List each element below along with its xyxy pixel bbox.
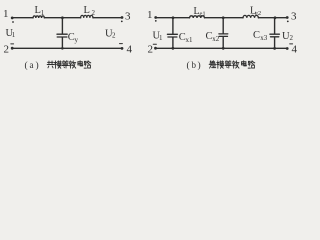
caption (b) prefix [187, 60, 201, 71]
label L2 [84, 5, 96, 17]
caption (b) text 差模等效电路 [209, 61, 255, 69]
junction node bottom of Cx2 [222, 47, 225, 50]
junction node bottom of Cy [61, 47, 64, 50]
bottom wire (circuit b) [157, 47, 286, 49]
label Cx1 [179, 32, 193, 44]
capacitor Cx2 plates [219, 33, 228, 35]
svg-text:1: 1 [41, 9, 45, 17]
label Le2 [250, 6, 261, 17]
label Cx2 [206, 31, 220, 43]
voltage label U2 (circuit b) [282, 31, 294, 42]
wire top 2 (circuit b) [205, 17, 244, 19]
svg-text:C: C [253, 30, 260, 41]
svg-text:L: L [84, 5, 90, 16]
node 3 (circuit a) label [125, 11, 131, 23]
terminal dot node 1 (circuit a) [11, 17, 14, 20]
svg-text:2: 2 [112, 32, 116, 40]
polarity mark below node 1 (circuit a) [12, 21, 14, 23]
voltage label U1 (circuit a) [6, 28, 16, 39]
junction node top of Cx2 [222, 16, 225, 19]
capacitor Cy top lead [61, 19, 63, 34]
svg-text:): ) [198, 60, 201, 71]
label Le1 [194, 6, 206, 18]
svg-text:4: 4 [292, 43, 298, 55]
svg-text:b: b [192, 60, 197, 70]
inductor L2 coil [81, 15, 93, 18]
polarity mark above node 4 (circuit a) [120, 43, 123, 45]
svg-text:(: ( [25, 60, 28, 71]
terminal dot node 3 (circuit b) [286, 16, 289, 19]
polarity mark above node 4 (circuit b) [290, 43, 293, 45]
capacitor Cy bottom lead [61, 38, 63, 49]
capacitor Cx1 top lead [172, 19, 174, 34]
terminal dot node 4 (circuit b) [286, 47, 289, 50]
node 4 (circuit a) label [127, 44, 133, 56]
junction node bottom of Cx3 [273, 47, 276, 50]
svg-text:1: 1 [3, 8, 9, 20]
bottom wire (circuit a) [14, 47, 121, 49]
svg-text:2: 2 [92, 9, 96, 17]
label Cy [68, 32, 79, 44]
terminal dot node 2 (circuit a) [11, 47, 14, 50]
caption (a) text 共模等效电路 [47, 61, 91, 69]
junction node top of Cx1 [172, 16, 175, 19]
polarity mark below node 3 (circuit b) [287, 21, 289, 23]
wire top-right (circuit a) [93, 17, 121, 19]
voltage label U1 (circuit b) [153, 31, 164, 42]
capacitor Cx2 bottom lead [222, 37, 224, 48]
node 2 (circuit a) label [4, 43, 10, 55]
junction node top of Cx3 [274, 16, 277, 19]
node 1 (circuit a) label [3, 8, 9, 20]
wire top 1 (circuit b) [157, 17, 190, 19]
svg-text:1: 1 [147, 9, 153, 21]
node 4 (circuit b) label [292, 43, 298, 55]
capacitor Cx3 top lead [274, 19, 276, 34]
svg-text:x1: x1 [186, 36, 194, 44]
polarity mark above node 2 (circuit a) [11, 43, 14, 45]
polarity mark above node 2 (circuit b) [153, 43, 156, 45]
svg-text:1: 1 [12, 31, 16, 39]
junction node bottom of Cx1 [172, 47, 175, 50]
svg-text:e1: e1 [200, 11, 206, 18]
wire between L1 and L2 (circuit a) [44, 17, 80, 19]
svg-text:2: 2 [4, 43, 10, 55]
svg-text:3: 3 [291, 10, 297, 22]
node 2 (circuit b) label [148, 43, 154, 55]
label Cx3 [253, 30, 268, 42]
svg-text:(: ( [187, 60, 190, 71]
capacitor Cx1 bottom lead [172, 38, 174, 49]
capacitor Cx3 bottom lead [274, 37, 276, 48]
polarity mark below node 3 (circuit a) [121, 21, 123, 23]
svg-text:y: y [75, 36, 79, 44]
junction node top of Cy [61, 16, 64, 19]
capacitor Cx3 plates [270, 33, 280, 35]
svg-text:1: 1 [159, 34, 163, 42]
svg-text:3: 3 [125, 11, 131, 23]
polarity mark below node 1 (circuit b) [155, 20, 157, 22]
voltage label U2 (circuit a) [105, 29, 116, 40]
wire top 3 (circuit b) [259, 17, 287, 19]
capacitor Cy plates [57, 33, 67, 35]
inductor L1 coil [33, 16, 44, 18]
wire top-left (circuit a) [14, 17, 33, 19]
svg-text:x3: x3 [260, 34, 268, 42]
svg-text:e2: e2 [255, 10, 261, 17]
svg-text:4: 4 [127, 44, 133, 56]
svg-text:): ) [36, 60, 39, 71]
node 1 (circuit b) label [147, 9, 153, 21]
svg-text:2: 2 [148, 43, 154, 55]
caption (a) prefix [25, 60, 39, 71]
terminal dot node 3 (circuit a) [121, 16, 124, 19]
label L1 [35, 5, 45, 17]
inductor Le2 coil [243, 15, 258, 18]
svg-text:2: 2 [290, 34, 294, 42]
inductor Le1 coil [190, 16, 205, 18]
capacitor Cx2 top lead [222, 19, 224, 34]
terminal dot node 2 (circuit b) [154, 47, 157, 50]
terminal dot node 4 (circuit a) [121, 47, 124, 50]
capacitor Cx1 plates [167, 33, 177, 35]
terminal dot node 1 (circuit b) [154, 16, 157, 19]
node 3 (circuit b) label [291, 10, 297, 22]
svg-text:a: a [30, 60, 34, 70]
